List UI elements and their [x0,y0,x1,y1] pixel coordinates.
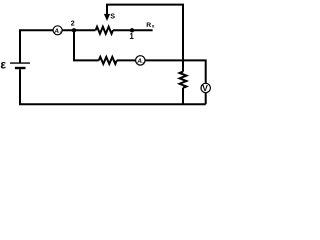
svg-text:2: 2 [71,21,75,28]
svg-text:R: R [146,22,151,29]
resistor R second row [99,57,117,64]
node 2 junction dot [72,28,76,32]
ammeter A1 [53,26,62,35]
voltmeter V [201,83,210,93]
battery cell ε [10,63,30,68]
wire A1 to rheostat [62,29,95,31]
svg-text:ε: ε [0,58,6,72]
node 1 dot [130,28,134,32]
slider arrowhead S [104,14,110,21]
ammeter A2 [136,56,146,66]
wire left vertical + top row to ammeter A1 [20,30,53,62]
resistor R1 vertical right branch [180,72,187,88]
wire rheostat to open end (Rx terminal) [113,29,153,31]
wire battery to bottom wire to voltmeter branch [20,69,206,104]
svg-text:1: 1 [129,32,134,41]
wire resistor to ammeter A2 [117,59,136,61]
rheostat resistor (slide-wire) top row [96,27,113,34]
wire below resistor R1 to bottom [182,88,184,104]
wire A2 to right, corner down to voltmeter [145,60,206,83]
wire top bar from slider S to right vertical down to resistor R1 [107,5,183,72]
svg-text:V: V [202,83,208,93]
svg-text:A: A [53,28,59,35]
wire voltmeter to bottom wire [205,93,207,104]
svg-text:x: x [152,24,155,29]
wire node 2 drop to second row resistor [74,30,99,60]
svg-text:S: S [110,12,115,21]
